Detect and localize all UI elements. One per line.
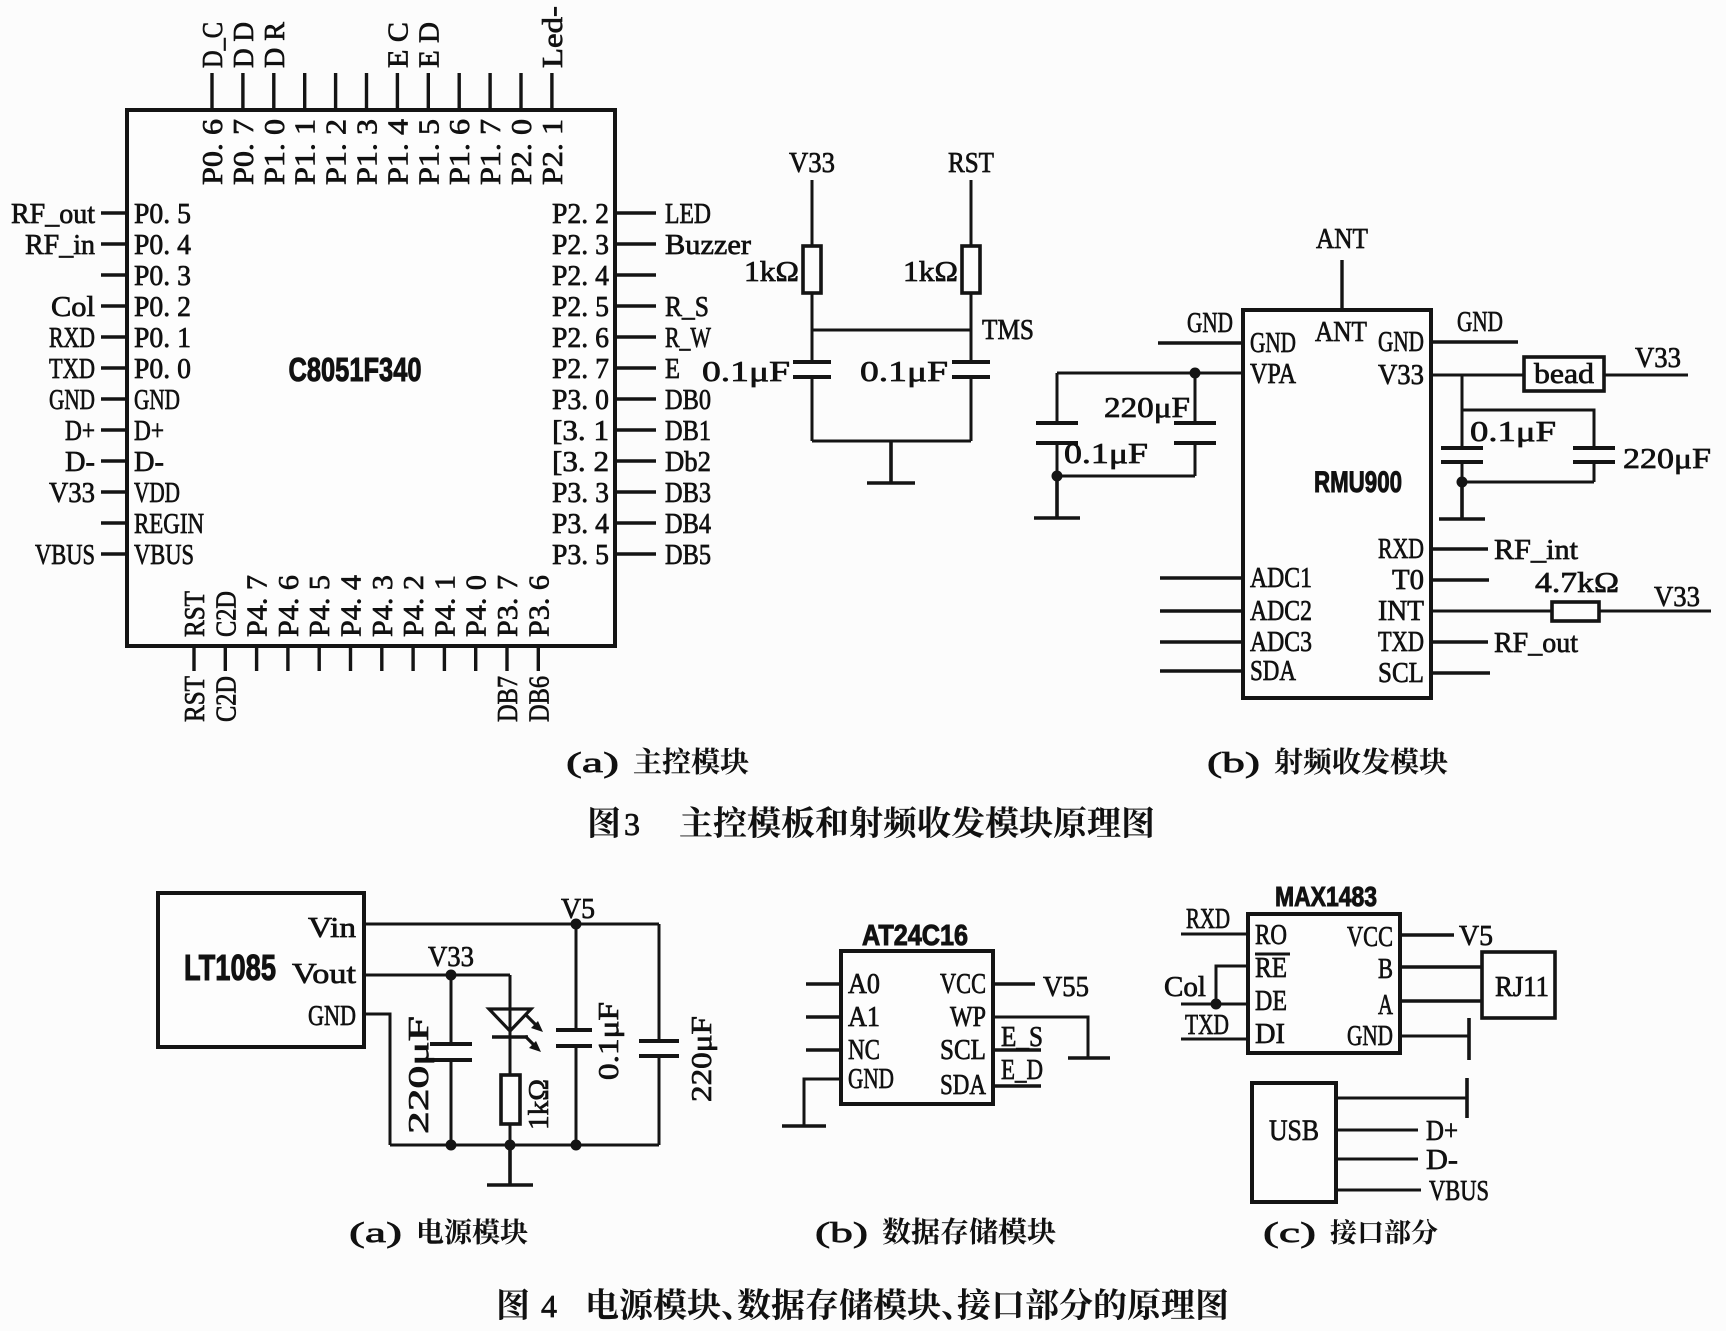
wire top pin P1.2: [334, 73, 337, 110]
svg-text:P0. 3: P0. 3: [134, 260, 191, 292]
svg-text:AT24C16: AT24C16: [862, 920, 968, 952]
svg-text:V33: V33: [1378, 359, 1424, 391]
ground: [487, 1145, 533, 1185]
wire top pin P2.1: [550, 73, 553, 110]
wire GND pin: [804, 1079, 841, 1126]
svg-text:GND: GND: [308, 1000, 356, 1032]
svg-text:RJ11: RJ11: [1495, 971, 1549, 1003]
wire A1 pin: [806, 1015, 841, 1018]
svg-text:V55: V55: [1043, 971, 1089, 1003]
svg-text:0.1μF: 0.1μF: [1064, 438, 1148, 470]
wire left pin P0.1: [101, 335, 127, 338]
wire left pin D+: [101, 428, 127, 431]
svg-text:RST: RST: [179, 676, 211, 722]
svg-text:P2. 7: P2. 7: [552, 353, 609, 385]
svg-text:P4. 3: P4. 3: [367, 575, 399, 637]
wire ADC3 pin: [1160, 640, 1243, 643]
wire C4 to ground node: [1194, 443, 1197, 476]
svg-text:ANT: ANT: [1316, 223, 1368, 255]
svg-text:A: A: [1378, 989, 1393, 1021]
wire SCL pin: [1431, 671, 1490, 674]
svg-text:DB7: DB7: [492, 676, 524, 722]
wire left pin D-: [101, 459, 127, 462]
wire LED branch down: [509, 975, 512, 1075]
wire top pin P1.4: [396, 73, 399, 110]
svg-text:INT: INT: [1378, 595, 1424, 627]
svg-text:P0. 7: P0. 7: [228, 119, 260, 185]
svg-text:V33: V33: [1654, 581, 1700, 613]
svg-text:MAX1483: MAX1483: [1275, 881, 1377, 912]
svg-text:P0. 5: P0. 5: [134, 198, 191, 230]
wire V5 rail corner to C9: [658, 924, 661, 1043]
svg-text:220μF: 220μF: [403, 1016, 435, 1134]
svg-text:SCL: SCL: [940, 1034, 986, 1066]
capacitor C1 0.1uF: [793, 362, 831, 377]
svg-text:P2. 5: P2. 5: [552, 291, 609, 323]
svg-text:SCL: SCL: [1378, 657, 1424, 689]
svg-text:Vin: Vin: [308, 912, 357, 944]
wire A pin to RJ11: [1400, 999, 1482, 1002]
wire Vin to V5 rail: [364, 923, 659, 926]
wire right pin P2.4: [615, 273, 656, 276]
wire RE to DE link: [1216, 966, 1248, 1004]
wire right GND pin: [1431, 340, 1518, 343]
wire right pin [3.2: [615, 459, 656, 462]
wire R3 to V33: [1599, 610, 1711, 613]
resistor R4 1k: [501, 1075, 520, 1124]
svg-text:VBUS: VBUS: [134, 539, 194, 571]
svg-text:DB5: DB5: [665, 539, 711, 571]
ground: [782, 1124, 826, 1128]
svg-text:P2. 0: P2. 0: [506, 119, 538, 185]
IC U5 MAX1483 body: [1248, 914, 1400, 1053]
svg-text:VBUS: VBUS: [1429, 1175, 1489, 1207]
wire left pin P0.4: [101, 242, 127, 245]
svg-text:TMS: TMS: [982, 314, 1034, 346]
svg-text:P4. 4: P4. 4: [336, 574, 368, 637]
wire bottom pin P4.1: [443, 646, 446, 671]
svg-text:R_S: R_S: [665, 291, 709, 323]
junction V33: [446, 970, 457, 981]
svg-text:P0. 2: P0. 2: [134, 291, 191, 323]
svg-text:P1. 3: P1. 3: [352, 119, 384, 185]
svg-text:GND: GND: [1187, 307, 1233, 339]
svg-text:NC: NC: [848, 1034, 880, 1066]
svg-text:GND: GND: [134, 384, 180, 416]
svg-text:P1. 0: P1. 0: [259, 119, 291, 185]
svg-text:P2. 4: P2. 4: [552, 260, 609, 292]
svg-text:E_S: E_S: [1001, 1021, 1043, 1053]
svg-text:P1. 4: P1. 4: [382, 118, 414, 185]
svg-text:DB0: DB0: [665, 384, 711, 416]
capacitor C2 0.1uF: [952, 362, 990, 377]
svg-text:P3. 0: P3. 0: [552, 384, 609, 416]
svg-text:E D: E D: [413, 22, 445, 68]
svg-text:LED: LED: [665, 198, 711, 230]
wire C8 to ground rail: [575, 1046, 578, 1145]
svg-text:RF_in: RF_in: [25, 229, 95, 261]
wire SDA pin: [1160, 669, 1243, 672]
svg-text:ANT: ANT: [1315, 316, 1367, 348]
IC U3 LT1085 body: [158, 893, 364, 1047]
svg-text:Col: Col: [1164, 971, 1206, 1003]
svg-text:0.1μF: 0.1μF: [1470, 416, 1556, 448]
svg-text:ADC2: ADC2: [1250, 595, 1312, 627]
ferrite bead FB1: [1524, 357, 1604, 391]
svg-text:P4. 0: P4. 0: [461, 575, 493, 637]
ground: [1467, 1018, 1471, 1060]
IC U1 C8051F340 body: [127, 110, 615, 646]
junction V5: [571, 919, 582, 930]
svg-text:RXD: RXD: [1378, 533, 1424, 565]
svg-text:GND: GND: [1347, 1020, 1393, 1052]
svg-text:DB4: DB4: [665, 508, 711, 540]
wire top pin P1.6: [458, 73, 461, 110]
wire bottom pin P4.4: [349, 646, 352, 671]
svg-text:P0. 0: P0. 0: [134, 353, 191, 385]
svg-text:RST: RST: [948, 147, 994, 179]
svg-text:TXD: TXD: [49, 353, 95, 385]
wire D+ pin: [1336, 1129, 1418, 1132]
svg-text:0.1μF: 0.1μF: [860, 356, 948, 388]
wire GND pin down: [364, 1014, 390, 1145]
wire bottom pin RST: [192, 646, 195, 671]
svg-text:D+: D+: [134, 415, 164, 447]
wire ground rail: [390, 1144, 659, 1147]
svg-text:4: 4: [541, 1288, 557, 1324]
wire right pin P3.3: [615, 490, 656, 493]
svg-text:P4. 2: P4. 2: [398, 575, 430, 637]
svg-text:P0. 4: P0. 4: [134, 229, 191, 261]
svg-text:Led-: Led-: [537, 6, 569, 68]
svg-text:P1. 7: P1. 7: [475, 119, 507, 185]
wire B pin to RJ11: [1400, 965, 1482, 968]
wire left pin P0.3: [101, 273, 127, 276]
wire left pin P0.5: [101, 211, 127, 214]
svg-text:A1: A1: [848, 1001, 880, 1033]
svg-text:P2. 1: P2. 1: [537, 119, 569, 185]
wire VPA pin: [1057, 372, 1243, 375]
svg-text:P4. 1: P4. 1: [429, 575, 461, 637]
svg-text:D-: D-: [65, 446, 95, 478]
junction ground rail mid: [505, 1140, 516, 1151]
wire left GND pin: [1158, 341, 1243, 344]
wire left pin REGIN: [101, 521, 127, 524]
svg-text:D-: D-: [1426, 1144, 1458, 1176]
wire cap bottoms join: [1462, 481, 1594, 484]
svg-text:E C: E C: [382, 22, 414, 68]
svg-text:C8051F340: C8051F340: [289, 351, 422, 388]
wire TXD pin: [1431, 640, 1488, 643]
wire R2 to node TMS: [970, 293, 973, 362]
wire C6 bottom: [1593, 462, 1596, 482]
svg-text:RF_out: RF_out: [11, 198, 95, 230]
IC U4 AT24C16 body: [841, 951, 993, 1104]
wire bottom pin P4.2: [411, 646, 414, 671]
svg-text:V5: V5: [561, 893, 595, 925]
wire VCC pin: [1400, 933, 1454, 936]
svg-text:V33: V33: [1635, 342, 1681, 374]
wire VPA junction to C4: [1194, 373, 1197, 423]
svg-text:D+: D+: [65, 415, 95, 447]
svg-text:P3. 5: P3. 5: [552, 539, 609, 571]
resistor R3 4.7k: [1552, 602, 1599, 621]
wire V33 to R1: [811, 180, 814, 246]
wire VBUS pin: [1336, 1189, 1421, 1192]
resistor R1 1k: [803, 246, 821, 293]
svg-text:4.7kΩ: 4.7kΩ: [1535, 567, 1619, 599]
ground: [1439, 482, 1485, 519]
svg-text:Db2: Db2: [665, 446, 711, 478]
svg-text:Buzzer: Buzzer: [665, 229, 751, 261]
svg-text:DI: DI: [1255, 1018, 1285, 1050]
svg-text:0.1μF: 0.1μF: [702, 356, 790, 388]
ground: [1034, 476, 1080, 518]
wire C9 to ground rail: [658, 1056, 661, 1145]
svg-text:B: B: [1378, 953, 1393, 985]
wire V33 pin to bead: [1431, 374, 1524, 377]
wire left pin P0.0: [101, 366, 127, 369]
svg-text:D+: D+: [1426, 1115, 1458, 1147]
svg-text:P3. 6: P3. 6: [523, 575, 555, 637]
svg-text:TXD: TXD: [1378, 626, 1424, 658]
svg-text:REGIN: REGIN: [134, 508, 204, 540]
svg-text:E_D: E_D: [1001, 1054, 1043, 1086]
svg-text:RXD: RXD: [49, 322, 95, 354]
capacitor C3 0.1uF: [1036, 423, 1078, 443]
svg-text:D R: D R: [259, 21, 291, 68]
svg-text:DB6: DB6: [523, 676, 555, 722]
svg-text:RE: RE: [1255, 952, 1287, 984]
capacitor C5 0.1uF: [1441, 448, 1483, 462]
svg-text:E: E: [665, 353, 680, 385]
svg-text:P1. 5: P1. 5: [413, 119, 445, 185]
svg-text:P0. 1: P0. 1: [134, 322, 191, 354]
svg-text:GND: GND: [1378, 326, 1424, 358]
wire top pin P0.6: [210, 73, 213, 110]
svg-text:RST: RST: [179, 591, 211, 637]
ground: [1068, 1056, 1110, 1060]
wire V33 junction to C7: [450, 975, 453, 1044]
svg-text:GND: GND: [848, 1063, 894, 1095]
svg-text:P4. 6: P4. 6: [273, 575, 305, 637]
capacitor C7 220uF: [430, 1044, 472, 1060]
wire top pin P2.0: [519, 73, 522, 110]
junction Col: [1211, 999, 1222, 1010]
svg-text:P1. 6: P1. 6: [444, 119, 476, 185]
svg-text:0.1μF: 0.1μF: [593, 1002, 625, 1080]
wire SCL pin: [993, 1048, 1041, 1051]
wire INT pin to R3: [1431, 610, 1552, 613]
svg-text:V33: V33: [428, 941, 474, 973]
resistor R2 1k: [962, 246, 980, 293]
svg-text:USB: USB: [1269, 1114, 1319, 1147]
capacitor C4 220uF: [1174, 423, 1216, 443]
wire TXD to DI pin: [1181, 1038, 1248, 1041]
svg-text:P3. 7: P3. 7: [492, 575, 524, 637]
wire C7 to ground rail: [450, 1060, 453, 1145]
svg-text:(b): (b): [1207, 747, 1260, 779]
svg-text:D_C: D_C: [197, 22, 229, 68]
junction ground rail left: [446, 1140, 457, 1151]
LED D1: [489, 1009, 531, 1037]
wire R4 to ground rail: [509, 1124, 512, 1145]
wire bottom pin P3.6: [537, 646, 540, 671]
wire node TMS horizontal: [812, 329, 971, 332]
wire RXD pin: [1431, 547, 1488, 550]
wire USB shield to ground: [1336, 1097, 1467, 1100]
svg-text:[3. 2: [3. 2: [552, 446, 609, 478]
wire ANT: [1340, 260, 1343, 310]
capacitor C8 0.1uF: [556, 1030, 592, 1046]
wire top pin P1.1: [303, 73, 306, 110]
wire GND pin: [1400, 1035, 1469, 1038]
connector J1 RJ11 body: [1482, 952, 1555, 1018]
svg-text:DB3: DB3: [665, 477, 711, 509]
wire right pin P3.5: [615, 552, 656, 555]
wire top pin P1.3: [365, 73, 368, 110]
svg-text:DB1: DB1: [665, 415, 711, 447]
svg-text:GND: GND: [49, 384, 95, 416]
junction ground node: [1457, 477, 1468, 488]
svg-text:P2. 2: P2. 2: [552, 198, 609, 230]
wire ADC2 pin: [1160, 609, 1243, 612]
wire RST to R2: [970, 180, 973, 246]
svg-text:GND: GND: [1457, 306, 1503, 338]
connector J2 USB body: [1252, 1083, 1336, 1202]
svg-text:P0. 6: P0. 6: [197, 119, 229, 185]
wire Col to DE pin: [1181, 1003, 1248, 1006]
svg-text:C2D: C2D: [210, 676, 242, 722]
ground: [867, 441, 915, 483]
svg-text:ADC3: ADC3: [1250, 626, 1312, 658]
svg-text:VDD: VDD: [134, 477, 180, 509]
svg-text:RF_out: RF_out: [1494, 627, 1578, 659]
wire bottom pin P3.7: [505, 646, 508, 671]
svg-text:3: 3: [624, 806, 640, 842]
svg-text:V5: V5: [1459, 920, 1493, 952]
svg-text:RMU900: RMU900: [1314, 466, 1402, 499]
svg-text:220μF: 220μF: [1623, 443, 1711, 475]
wire T0 pin: [1431, 578, 1489, 581]
svg-text:1kΩ: 1kΩ: [523, 1079, 555, 1130]
caption figure 3: [590, 807, 619, 838]
wire R1 to node TMS: [811, 293, 814, 362]
wire right pin P2.5: [615, 304, 656, 307]
svg-text:VCC: VCC: [940, 968, 986, 1000]
wire left pin P0.2: [101, 304, 127, 307]
wire RXD to RO pin: [1181, 933, 1248, 936]
wire bottom pin P4.6: [286, 646, 289, 671]
wire V33 branch down to C5: [1461, 375, 1464, 448]
wire A0 pin: [806, 982, 841, 985]
svg-text:SDA: SDA: [1250, 655, 1296, 687]
wire bottom pin P4.0: [474, 646, 477, 671]
ground: [1465, 1078, 1469, 1118]
wire right pin P2.2: [615, 211, 656, 214]
junction ground node: [1052, 471, 1063, 482]
capacitor C9 220uF: [639, 1041, 679, 1056]
wire left pin GND: [101, 397, 127, 400]
wire D- pin: [1336, 1158, 1418, 1161]
pin RE overline: [1255, 953, 1290, 956]
svg-text:P4. 5: P4. 5: [304, 575, 336, 637]
wire VCC pin: [993, 982, 1035, 985]
wire C1 to ground rail: [811, 377, 814, 441]
svg-text:1kΩ: 1kΩ: [744, 256, 799, 288]
svg-text:DE: DE: [1255, 985, 1287, 1017]
wire bottom pin P4.7: [255, 646, 258, 671]
wire cap bottoms join: [1057, 475, 1195, 478]
svg-text:(a): (a): [349, 1217, 402, 1249]
svg-text:TXD: TXD: [1185, 1009, 1229, 1041]
svg-text:[3. 1: [3. 1: [552, 415, 609, 447]
wire bottom pin P4.3: [380, 646, 383, 671]
svg-text:P1. 1: P1. 1: [290, 119, 322, 185]
wire right pin P2.3: [615, 242, 656, 245]
svg-text:VBUS: VBUS: [35, 539, 95, 571]
caption figure 4: [499, 1289, 528, 1320]
svg-text:P2. 6: P2. 6: [552, 322, 609, 354]
svg-text:(a): (a): [566, 747, 619, 779]
wire VPA to C3: [1056, 373, 1059, 423]
wire C2 to ground rail: [970, 377, 973, 441]
wire top pin P0.7: [241, 73, 244, 110]
wire SDA pin: [993, 1084, 1041, 1087]
svg-text:1kΩ: 1kΩ: [903, 256, 958, 288]
wire WP pin to ground: [993, 1017, 1088, 1058]
svg-text:P4. 7: P4. 7: [242, 575, 274, 637]
svg-text:P3. 4: P3. 4: [552, 508, 609, 540]
svg-text:RO: RO: [1255, 919, 1287, 951]
svg-text:SDA: SDA: [940, 1069, 986, 1101]
svg-text:T0: T0: [1392, 564, 1424, 596]
svg-text:(b): (b): [815, 1217, 868, 1249]
svg-text:RF_int: RF_int: [1494, 534, 1578, 566]
svg-text:V33: V33: [789, 147, 835, 179]
junction VPA: [1190, 368, 1201, 379]
wire C5 bottom: [1461, 462, 1464, 482]
svg-text:Vout: Vout: [292, 958, 356, 990]
wire right pin P2.6: [615, 335, 656, 338]
wire bead to V33: [1604, 374, 1688, 377]
svg-text:220μF: 220μF: [686, 1016, 718, 1102]
wire ADC1 pin: [1160, 576, 1243, 579]
wire V5 junction to C8: [575, 924, 578, 1030]
svg-text:A0: A0: [848, 968, 880, 1000]
svg-text:VCC: VCC: [1347, 921, 1393, 953]
wire Vout to LED branch: [364, 974, 510, 977]
svg-text:P3. 3: P3. 3: [552, 477, 609, 509]
capacitor C6 220uF: [1573, 448, 1615, 462]
wire right pin P2.7: [615, 366, 656, 369]
svg-text:GND: GND: [1250, 327, 1296, 359]
wire bottom pin P4.5: [318, 646, 321, 671]
svg-text:C2D: C2D: [210, 591, 242, 637]
junction ground rail right: [571, 1140, 582, 1151]
svg-text:D D: D D: [228, 22, 260, 68]
svg-text:V33: V33: [49, 477, 95, 509]
wire left pin VBUS: [101, 552, 127, 555]
svg-text:RXD: RXD: [1186, 903, 1230, 935]
svg-text:P1. 2: P1. 2: [321, 119, 353, 185]
wire top pin P1.5: [427, 73, 430, 110]
svg-text:WP: WP: [950, 1001, 986, 1033]
svg-text:P2. 3: P2. 3: [552, 229, 609, 261]
svg-text:LT1085: LT1085: [184, 947, 276, 988]
svg-text:(c): (c): [1263, 1217, 1316, 1249]
svg-text:220μF: 220μF: [1104, 392, 1190, 424]
